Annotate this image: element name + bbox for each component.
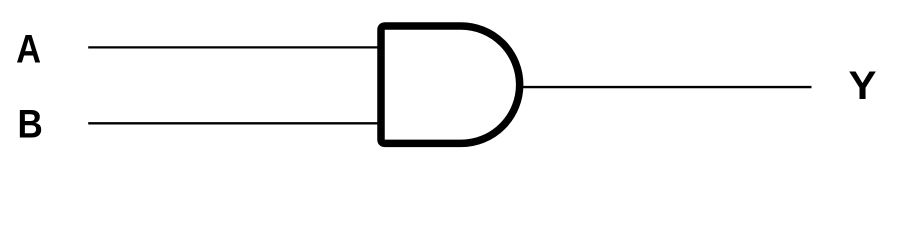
wire Y (gate output) [521, 86, 812, 88]
AND gate U1 [381, 26, 520, 143]
wire A (input A to gate) [88, 46, 381, 48]
wire B (input B to gate) [88, 122, 381, 124]
svg-text:Y: Y [848, 63, 876, 108]
svg-text:B: B [17, 101, 42, 146]
svg-text:A: A [16, 26, 41, 71]
